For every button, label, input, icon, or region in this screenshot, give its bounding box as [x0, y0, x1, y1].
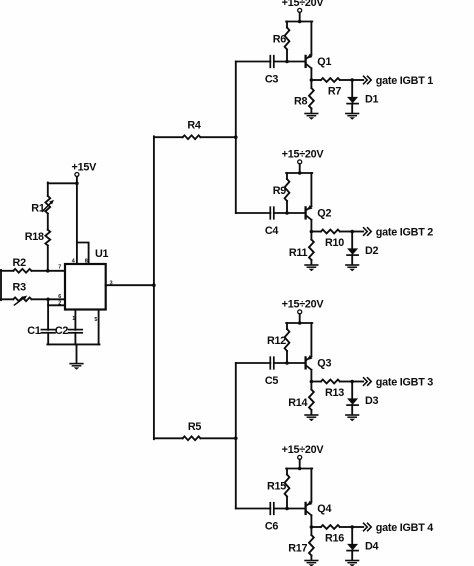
svg-text:R15: R15	[267, 480, 286, 492]
wire U1 pin 1 down	[74, 310, 76, 330]
wire R8 to ground	[310, 109, 312, 113]
resistor R7	[321, 78, 340, 82]
svg-text:4: 4	[72, 258, 75, 264]
resistor R5	[183, 436, 201, 440]
junction pin6 row / C1 branch	[46, 298, 50, 302]
wire output (stage 3)	[352, 381, 363, 383]
wire node to R13	[311, 381, 321, 383]
wire node to diode D1	[351, 80, 353, 97]
wire base (stage 1)	[274, 61, 305, 63]
junction R18 / R2 row	[46, 269, 50, 273]
capacitor C2	[69, 329, 83, 331]
R1 wiper arrow	[42, 202, 51, 211]
svg-text:R1: R1	[31, 202, 45, 214]
wire +15V down to U1 pin 4	[76, 177, 78, 265]
diode D4	[347, 544, 358, 551]
svg-text:C5: C5	[265, 375, 279, 387]
wire left loop R2-R3	[0, 270, 2, 300]
ground below R17	[305, 560, 318, 562]
supply terminal stage 2	[298, 160, 302, 164]
wire base (stage 4)	[274, 508, 305, 510]
wire R12 to base node	[286, 351, 288, 363]
wire U1 pin 3 output	[106, 284, 154, 286]
junction supply split (stage 1)	[298, 20, 302, 24]
svg-text:+15÷20V: +15÷20V	[282, 444, 325, 456]
svg-text:Q4: Q4	[317, 503, 331, 515]
wire D1 to ground	[351, 104, 353, 113]
wire node to diode D3	[351, 382, 353, 399]
resistor R9	[285, 179, 290, 201]
wire D4 to ground	[351, 551, 353, 560]
wire D3 to ground	[351, 405, 353, 414]
svg-text:R7: R7	[328, 85, 342, 97]
junction base node (stage 4)	[285, 507, 289, 511]
svg-text:R2: R2	[13, 257, 27, 269]
junction U1 output to bus	[152, 283, 156, 287]
transistor Q3 (PNP)	[306, 355, 313, 370]
ground below U1 section	[70, 363, 83, 365]
svg-text:+15÷20V: +15÷20V	[282, 299, 325, 311]
svg-text:C3: C3	[265, 74, 279, 86]
wire R2 to U1 pin 7	[32, 270, 66, 272]
output arrow chevrons (stage 1)	[364, 76, 372, 83]
resistor R10	[321, 230, 340, 234]
svg-text:D3: D3	[365, 395, 379, 407]
wire node to R14	[310, 382, 312, 390]
wire C2 to ground rail	[74, 333, 76, 345]
wire C1 to ground rail	[47, 333, 49, 345]
wire lower right bus (stage3-stage4)	[235, 363, 237, 509]
wire supply top bar (stage 4)	[286, 468, 312, 470]
supply terminal stage 4	[298, 455, 302, 459]
svg-text:+15÷20V: +15÷20V	[282, 149, 325, 161]
wire ground stem U1	[76, 344, 78, 362]
diode D1	[347, 97, 358, 104]
junction supply split (stage 2)	[298, 171, 302, 175]
wire supply to resistor R15	[286, 469, 288, 475]
transistor Q2 (PNP)	[306, 205, 313, 220]
resistor R14	[309, 390, 314, 411]
diode D2	[347, 248, 358, 255]
wire R5 left	[154, 437, 183, 439]
svg-text:R16: R16	[325, 532, 344, 544]
ground below R11	[305, 264, 318, 266]
wire node to R16	[311, 526, 321, 528]
junction diode node (stage 1)	[350, 78, 354, 82]
wire node to R10	[311, 231, 321, 233]
svg-text:7: 7	[58, 265, 61, 271]
wire R3 left end	[1, 298, 13, 300]
ground below D1	[346, 113, 359, 115]
junction +15V tee	[75, 182, 79, 186]
capacitor C3	[269, 56, 271, 68]
svg-text:R4: R4	[187, 119, 201, 131]
wire supply terminal to rail split (stage 3)	[299, 314, 301, 323]
wire output (stage 1)	[352, 79, 363, 81]
wire supply terminal to rail split (stage 2)	[299, 164, 301, 173]
wire R7 to diode node	[340, 79, 352, 81]
svg-text:C4: C4	[265, 225, 279, 237]
svg-text:gate IGBT 2: gate IGBT 2	[376, 226, 433, 238]
resistor R8	[309, 88, 314, 109]
capacitor C5	[269, 357, 271, 369]
svg-text:C2: C2	[55, 325, 69, 337]
ground below R14	[305, 414, 318, 416]
junction diode node (stage 2)	[350, 230, 354, 234]
wire R2 left end	[1, 270, 13, 272]
svg-text:R10: R10	[325, 237, 344, 249]
wire emitter rail (stage 4)	[310, 469, 312, 502]
wire supply top bar (stage 3)	[286, 322, 312, 324]
svg-text:D4: D4	[365, 541, 379, 553]
wire R10 to diode node	[340, 231, 352, 233]
wire R13 to diode node	[340, 381, 352, 383]
wire supply to resistor R6	[286, 22, 288, 28]
wire U1 pin 5 down	[98, 310, 100, 345]
resistor R4	[183, 135, 201, 139]
junction R5 to lower bus	[234, 437, 238, 441]
wire node to R8	[310, 80, 312, 88]
svg-text:R18: R18	[25, 231, 44, 243]
resistor R6	[285, 28, 290, 50]
wire supply to resistor R9	[286, 173, 288, 179]
svg-text:R3: R3	[13, 282, 27, 294]
supply terminal stage 3	[298, 310, 302, 314]
junction base node (stage 3)	[285, 361, 289, 365]
svg-text:R6: R6	[273, 33, 287, 45]
wire R5 right	[200, 437, 235, 439]
+15V supply terminal	[75, 173, 79, 177]
junction output node (stage 2)	[310, 230, 314, 234]
junction supply split (stage 3)	[298, 321, 302, 325]
svg-text:gate IGBT 4: gate IGBT 4	[376, 522, 433, 534]
svg-text:6: 6	[58, 294, 61, 300]
wire R17 to ground	[310, 556, 312, 560]
svg-text:R8: R8	[294, 95, 308, 107]
output arrow chevrons (stage 3)	[364, 378, 372, 385]
wire bus to C3	[236, 61, 270, 63]
wire base (stage 3)	[274, 362, 305, 364]
wire R11 to ground	[310, 260, 312, 264]
svg-text:1: 1	[72, 316, 75, 322]
junction base node (stage 2)	[285, 211, 289, 215]
resistor R3 (variable)	[13, 297, 31, 301]
wire node to diode D2	[351, 232, 353, 249]
resistor R18	[45, 230, 50, 246]
resistor R1 (variable)	[45, 196, 50, 214]
resistor R17	[309, 535, 314, 556]
wire bottom ground rail	[47, 343, 99, 345]
wire D2 to ground	[351, 255, 353, 264]
wire bus to C4	[236, 212, 270, 214]
capacitor C6	[269, 503, 271, 515]
wire output (stage 2)	[352, 231, 363, 233]
wire node to diode D4	[351, 527, 353, 544]
wire node to R17	[310, 527, 312, 535]
wire emitter rail (stage 2)	[310, 173, 312, 206]
wire node to R7	[311, 79, 321, 81]
wire R14 to ground	[310, 410, 312, 414]
svg-text:gate IGBT 1: gate IGBT 1	[376, 75, 433, 87]
wire collector to node (stage 3)	[310, 370, 312, 382]
wire R16 to diode node	[340, 526, 352, 528]
resistor R13	[321, 380, 340, 384]
ground below D2	[346, 264, 359, 266]
wire R4 right	[200, 136, 235, 138]
resistor R12	[285, 329, 290, 351]
ground below D3	[346, 414, 359, 416]
wire R4 left	[154, 136, 183, 138]
wire upper right bus (stage1-stage2)	[235, 62, 237, 214]
svg-text:2: 2	[58, 300, 61, 306]
wire R9 to base node	[286, 201, 288, 213]
svg-text:D1: D1	[365, 94, 379, 106]
junction diode node (stage 4)	[350, 525, 354, 529]
resistor R2	[13, 269, 31, 273]
ground below D4	[346, 560, 359, 562]
wire pin6 row down to pin2 row	[47, 299, 49, 330]
wire left distribution bus	[153, 136, 155, 439]
junction diode node (stage 3)	[350, 380, 354, 384]
svg-text:R9: R9	[273, 185, 287, 197]
resistor R11	[309, 240, 314, 261]
svg-text:C1: C1	[27, 325, 41, 337]
supply terminal stage 1	[298, 8, 302, 12]
svg-text:gate IGBT 3: gate IGBT 3	[376, 376, 433, 388]
svg-text:+15÷20V: +15÷20V	[282, 0, 325, 9]
wire supply to resistor R12	[286, 323, 288, 329]
wire tee to R1 branch	[48, 182, 77, 184]
transistor Q4 (PNP)	[306, 501, 313, 516]
svg-text:R14: R14	[288, 397, 307, 409]
wire bus to C5	[236, 362, 270, 364]
junction output node (stage 3)	[310, 380, 314, 384]
wire collector to node (stage 2)	[310, 220, 312, 232]
svg-text:8: 8	[85, 259, 88, 265]
svg-text:+15V: +15V	[72, 161, 98, 173]
wire collector to node (stage 1)	[310, 68, 312, 80]
wire pin4-pin8 staple	[77, 243, 89, 265]
capacitor C4	[269, 207, 271, 219]
svg-text:D2: D2	[365, 245, 379, 257]
svg-text:R13: R13	[325, 387, 344, 399]
svg-text:R5: R5	[188, 421, 202, 433]
wire to U1 pin 2	[48, 304, 65, 306]
svg-text:U1: U1	[95, 248, 109, 260]
wire supply terminal to rail split (stage 1)	[299, 12, 301, 21]
wire output (stage 4)	[352, 526, 363, 528]
svg-text:R12: R12	[267, 335, 286, 347]
wire R6 to base node	[286, 50, 288, 62]
diode D3	[347, 398, 358, 405]
IC U1 body	[65, 264, 106, 310]
junction output node (stage 1)	[310, 78, 314, 82]
wire supply top bar (stage 2)	[286, 172, 312, 174]
svg-text:Q2: Q2	[317, 208, 331, 220]
svg-text:Q3: Q3	[317, 358, 331, 370]
junction R4 to upper bus	[234, 135, 238, 139]
svg-text:R11: R11	[289, 247, 308, 259]
output arrow chevrons (stage 2)	[364, 228, 372, 235]
wire R15 to base node	[286, 497, 288, 509]
wire base (stage 2)	[274, 212, 305, 214]
wire supply terminal to rail split (stage 4)	[299, 459, 301, 468]
wire supply top bar (stage 1)	[286, 21, 312, 23]
junction base node (stage 1)	[285, 60, 289, 64]
R3 wiper arrow	[14, 297, 24, 305]
svg-text:C6: C6	[265, 521, 279, 533]
wire emitter rail (stage 1)	[310, 22, 312, 55]
junction output node (stage 4)	[310, 525, 314, 529]
resistor R16	[321, 525, 340, 529]
svg-text:Q1: Q1	[317, 56, 331, 68]
wire collector to node (stage 4)	[310, 515, 312, 527]
resistor R15	[285, 475, 290, 497]
junction supply split (stage 4)	[298, 467, 302, 471]
wire R3 to U1 pin 6	[32, 298, 66, 300]
svg-text:R17: R17	[288, 542, 307, 554]
capacitor C1	[41, 329, 55, 331]
wire down to R1	[47, 182, 49, 196]
wire R1 to R18	[47, 214, 49, 230]
transistor Q1 (PNP)	[306, 54, 313, 69]
wire R18 to pin7 row	[47, 246, 49, 271]
wire bus to C6	[236, 508, 270, 510]
svg-text:5: 5	[94, 317, 97, 323]
output arrow chevrons (stage 4)	[364, 523, 372, 530]
svg-text:3: 3	[110, 280, 113, 286]
ground below R8	[305, 113, 318, 115]
wire node to R11	[310, 232, 312, 240]
wire emitter rail (stage 3)	[310, 323, 312, 356]
